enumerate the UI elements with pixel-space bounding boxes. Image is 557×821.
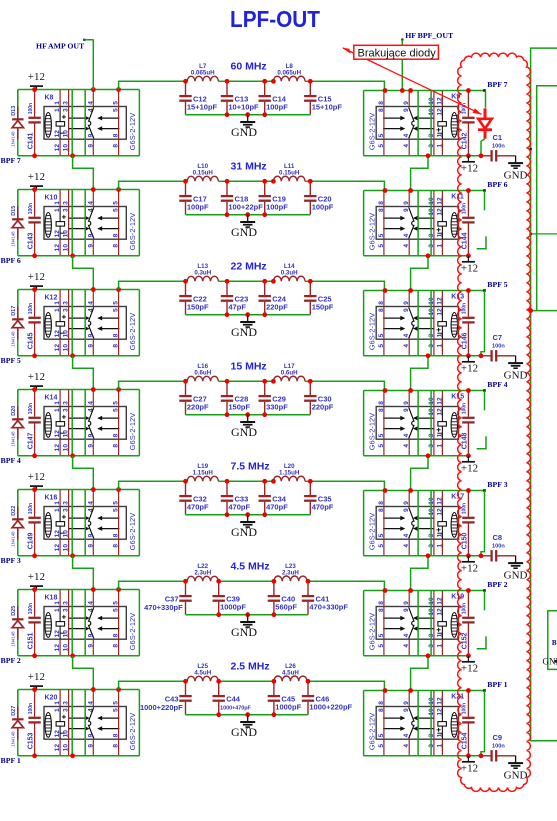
svg-text:8: 8 — [113, 233, 120, 237]
relay internal resistor — [438, 622, 447, 627]
diode D25 — [12, 606, 23, 639]
svg-text:12: 12 — [436, 97, 443, 105]
svg-text:100pF: 100pF — [266, 203, 288, 212]
svg-text:K20: K20 — [45, 695, 58, 702]
relay pin 5 (top) / pin 8 (bottom) wire — [118, 290, 120, 356]
svg-text:4: 4 — [87, 401, 94, 405]
svg-text:D22: D22 — [11, 506, 17, 516]
relay pin 1 (top) / pin 12 (bottom) wire — [59, 90, 61, 156]
svg-text:BPF 6: BPF 6 — [487, 180, 507, 189]
wire left cell bottom rail (row 6) — [18, 655, 140, 657]
annotation arrowhead right (points at missing diode) — [473, 108, 482, 114]
wire stub hook — [477, 236, 486, 249]
capacitor C144 — [462, 191, 474, 256]
svg-text:8: 8 — [113, 733, 120, 737]
relay coil — [45, 613, 51, 638]
capacitor C143 — [28, 190, 40, 256]
wire filter middle — [227, 380, 273, 382]
capacitor C13 — [221, 81, 233, 114]
relay K8 — [44, 107, 126, 140]
+12 supply symbol (right, row 1) — [462, 156, 475, 162]
junction rail/gnd — [245, 512, 250, 517]
junction bus/C — [32, 387, 37, 392]
+12 supply symbol (left, row 5) — [30, 486, 43, 489]
svg-text:C153: C153 — [28, 732, 35, 749]
junction rail/jog — [70, 153, 75, 158]
wire right +12/coil bus (row 5) — [364, 490, 486, 492]
svg-text:9: 9 — [403, 701, 410, 705]
relay lower NC contact arm — [69, 728, 87, 730]
wire HF BPF_OUT to K9 bus — [401, 40, 403, 91]
junction rail/C — [32, 553, 37, 558]
svg-text:12: 12 — [54, 244, 61, 252]
junction rail/C — [32, 653, 37, 658]
wire relay right edge — [138, 690, 140, 756]
svg-text:1: 1 — [436, 344, 443, 348]
svg-text:8: 8 — [378, 701, 385, 705]
svg-text:10: 10 — [63, 544, 70, 552]
svg-text:GND: GND — [231, 525, 257, 539]
svg-text:9: 9 — [403, 501, 410, 505]
svg-text:8: 8 — [113, 633, 120, 637]
relay pin 10 (top) / pin 3 (bottom) wire — [433, 391, 435, 456]
wire filter middle — [219, 580, 274, 582]
junction bus/pin9 — [408, 688, 413, 693]
diode D13 — [12, 106, 23, 139]
svg-text:12: 12 — [436, 197, 443, 205]
svg-text:8: 8 — [378, 208, 385, 212]
wire BPF 5 down to rail — [481, 291, 485, 356]
wire through relay (return) — [417, 591, 419, 656]
wire left cell bottom rail (row 4) — [18, 455, 140, 457]
inductor L20 — [273, 476, 305, 481]
svg-text:22 MHz: 22 MHz — [231, 261, 267, 273]
relay K12 — [44, 307, 126, 340]
svg-text:BPF 2: BPF 2 — [1, 656, 21, 665]
svg-text:8: 8 — [378, 101, 385, 105]
svg-text:5: 5 — [378, 244, 385, 248]
relay lower NC contact arm — [416, 128, 434, 130]
relay coil pin line (pin 1) — [60, 107, 65, 140]
wire right +12/coil bus (row 2) — [364, 190, 486, 192]
relay pin 5 (top) / pin 8 (bottom) wire — [118, 690, 120, 756]
relay pin 12 (top) / pin 1 (bottom) wire — [441, 691, 443, 756]
junction wire/coil2 — [271, 79, 276, 84]
relay upper common contact arm — [99, 517, 120, 519]
junction wire/C13 — [225, 79, 230, 84]
relay coil polarity + — [62, 515, 66, 519]
svg-text:8: 8 — [113, 533, 120, 537]
svg-text:31 MHz: 31 MHz — [231, 161, 267, 173]
relay lower common contact arm — [99, 528, 120, 530]
svg-text:100n: 100n — [462, 603, 468, 614]
wire through relay (return) — [417, 491, 419, 556]
svg-text:100pF: 100pF — [266, 103, 288, 112]
wire BPF 4 stub — [484, 391, 486, 411]
junction rail/C right — [466, 353, 471, 358]
relay coil polarity + — [437, 228, 441, 232]
inductor L26 — [274, 676, 307, 681]
svg-text:C144: C144 — [461, 232, 468, 249]
svg-text:C1: C1 — [493, 133, 503, 142]
svg-text:G6S-2-12V: G6S-2-12V — [128, 613, 137, 651]
relay internal resistor — [438, 122, 447, 127]
svg-text:100pF: 100pF — [312, 203, 334, 212]
junction rail/C9 — [479, 753, 484, 758]
svg-text:0.6uH: 0.6uH — [281, 370, 298, 377]
capacitor C39 — [213, 581, 225, 614]
svg-text:9: 9 — [403, 708, 410, 712]
wire left rail vertical — [17, 290, 19, 356]
junction bus/pin9 — [408, 588, 413, 593]
svg-text:9: 9 — [87, 633, 94, 637]
wire through relay (return) — [417, 191, 419, 256]
relay armature — [409, 707, 414, 738]
svg-text:8: 8 — [378, 301, 385, 305]
svg-text:12: 12 — [436, 208, 443, 216]
svg-text:100n: 100n — [28, 303, 34, 314]
svg-text:100n: 100n — [492, 344, 505, 350]
svg-text:G6S-2-12V: G6S-2-12V — [128, 213, 137, 251]
relay armature — [409, 207, 414, 238]
svg-text:10: 10 — [63, 644, 70, 652]
wire jog to next row bus — [73, 356, 94, 390]
svg-text:9: 9 — [87, 144, 94, 148]
svg-text:5: 5 — [378, 344, 385, 348]
svg-text:470pF: 470pF — [266, 503, 288, 512]
wire left +12/coil bus (row 3) — [18, 289, 140, 291]
wire right cell bottom rail (row 6) — [364, 655, 470, 657]
svg-text:5: 5 — [113, 208, 120, 212]
net terminal BPF 3 (right) — [483, 489, 486, 492]
wire through relay (feed) — [430, 691, 432, 756]
junction wire/C20 — [308, 179, 313, 184]
svg-text:4: 4 — [403, 644, 410, 648]
wire jog to next row bus — [73, 556, 94, 590]
junction bus/C right — [466, 488, 471, 493]
wire missing diode to rail — [481, 139, 485, 156]
relay pin 5 (top) / pin 8 (bottom) wire — [118, 190, 120, 256]
capacitor C148 — [462, 391, 474, 456]
wire jog to next row bus — [73, 256, 94, 290]
capacitor C37 — [179, 581, 191, 614]
svg-text:5: 5 — [113, 708, 120, 712]
svg-text:9: 9 — [87, 544, 94, 548]
relay upper common contact arm — [383, 217, 404, 219]
relay pin 10 (top) / pin 3 (bottom) wire — [433, 491, 435, 556]
+12 supply symbol (right, row 7) — [462, 756, 475, 762]
relay coil polarity + — [62, 615, 66, 619]
svg-text:G6S-2-12V: G6S-2-12V — [368, 713, 377, 751]
wire relay right edge — [138, 590, 140, 656]
svg-text:5: 5 — [113, 601, 120, 605]
svg-text:5: 5 — [378, 133, 385, 137]
svg-text:9: 9 — [87, 444, 94, 448]
svg-text:12: 12 — [54, 630, 61, 638]
capacitor C43 — [179, 681, 191, 714]
relay coil polarity + — [437, 728, 441, 732]
svg-text:4: 4 — [403, 433, 410, 437]
capacitor C23 — [221, 281, 233, 314]
+12 supply symbol (left, row 6) — [30, 586, 43, 589]
wire left +12/coil bus (row 5) — [18, 489, 140, 491]
inductor L8 — [273, 76, 305, 81]
svg-text:LPF-OUT: LPF-OUT — [230, 6, 320, 32]
wire through relay (contact return) — [84, 90, 86, 156]
relay pin 1 (top) / pin 12 (bottom) wire — [59, 490, 61, 556]
relay pin 9 (top) / pin 4 (bottom) wire — [408, 291, 410, 356]
junction wire/C29 — [262, 379, 267, 384]
svg-text:8: 8 — [378, 708, 385, 712]
svg-text:3: 3 — [63, 301, 70, 305]
svg-text:1: 1 — [54, 701, 61, 705]
wire bracket bottom right — [548, 611, 557, 670]
wire right jog to next row bus — [411, 456, 428, 491]
wire filter ground rail (row 4) — [186, 414, 311, 416]
svg-text:4: 4 — [403, 144, 410, 148]
wire left cell bottom rail (row 3) — [18, 355, 140, 357]
relay K21 — [376, 707, 458, 740]
svg-text:5: 5 — [113, 101, 120, 105]
svg-text:1N4148: 1N4148 — [11, 131, 16, 147]
relay internal resistor — [438, 322, 447, 327]
relay pin 3 (top) / pin 10 (bottom) wire — [68, 590, 70, 656]
junction wire/C30 — [308, 379, 313, 384]
svg-text:9: 9 — [403, 301, 410, 305]
svg-text:4: 4 — [403, 633, 410, 637]
junction rail/gnd — [245, 312, 250, 317]
svg-text:1: 1 — [54, 301, 61, 305]
svg-text:9: 9 — [403, 608, 410, 612]
wire left rail vertical — [17, 690, 19, 756]
ground (filter row 1) — [240, 115, 255, 127]
relay pin 12 (top) / pin 1 (bottom) wire — [441, 491, 443, 556]
wire jog to next row bus — [73, 456, 94, 490]
svg-text:3: 3 — [63, 701, 70, 705]
capacitor C150 — [462, 491, 474, 556]
svg-text:470+330pF: 470+330pF — [144, 603, 183, 612]
ground (C7) — [508, 356, 523, 368]
svg-text:9: 9 — [87, 344, 94, 348]
svg-text:1: 1 — [436, 544, 443, 548]
+12 supply symbol (left, row 2) — [30, 186, 43, 189]
wire through relay (contact return) — [84, 490, 86, 556]
relay pin 3 (top) / pin 10 (bottom) wire — [68, 490, 70, 556]
relay pin 12 (top) / pin 1 (bottom) wire — [441, 591, 443, 656]
svg-text:2.3uH: 2.3uH — [194, 570, 211, 577]
inductor L23 — [274, 576, 307, 581]
wire right cell bottom rail (row 3) — [364, 355, 481, 357]
svg-text:15 MHz: 15 MHz — [231, 361, 267, 373]
wire left cell bottom rail (row 5) — [18, 555, 140, 557]
svg-text:4: 4 — [403, 744, 410, 748]
capacitor C12 — [179, 81, 191, 114]
svg-text:4: 4 — [87, 108, 94, 112]
svg-text:5: 5 — [378, 444, 385, 448]
svg-text:100n: 100n — [492, 744, 505, 750]
svg-text:1N4148: 1N4148 — [11, 731, 16, 747]
wire left rail vertical — [17, 390, 19, 456]
wire through relay (contact feed) — [71, 90, 73, 156]
svg-text:BPF 3: BPF 3 — [1, 556, 21, 565]
svg-text:4: 4 — [87, 308, 94, 312]
svg-text:C143: C143 — [28, 232, 35, 249]
relay pin 4 (top) / pin 9 (bottom) wire — [92, 190, 94, 256]
junction rail/cap2 — [216, 712, 221, 717]
svg-text:3: 3 — [63, 501, 70, 505]
svg-text:8: 8 — [113, 144, 120, 148]
wire stub right mid — [531, 233, 557, 235]
relay lower common contact arm — [99, 628, 120, 630]
svg-text:100n: 100n — [462, 503, 468, 514]
wire filter input (row 7) — [119, 681, 186, 689]
relay coil pin line (pin 1) — [60, 307, 65, 340]
junction rail/C right — [466, 253, 471, 258]
svg-text:220pF: 220pF — [187, 403, 209, 412]
relay K16 — [44, 507, 126, 540]
svg-text:100n: 100n — [28, 403, 34, 414]
svg-text:12: 12 — [54, 730, 61, 738]
junction rail/cap3 — [262, 412, 267, 417]
capacitor C153 — [28, 690, 40, 756]
svg-text:4: 4 — [87, 608, 94, 612]
wire filter output (row 4) — [310, 381, 384, 390]
wire right cell left edge — [363, 391, 365, 456]
net terminal BPF 6 (right) — [483, 189, 486, 192]
relay armature — [409, 507, 414, 538]
junction rail/cap2 — [216, 612, 221, 617]
svg-text:12: 12 — [436, 697, 443, 705]
svg-text:1N4148: 1N4148 — [11, 531, 16, 547]
ground (C8) — [508, 556, 523, 568]
wire diode top — [17, 290, 19, 307]
relay pin 8 (top) / pin 5 (bottom) wire — [383, 291, 385, 356]
relay pin 4 (top) / pin 9 (bottom) wire — [92, 90, 94, 156]
svg-text:0.065uH: 0.065uH — [277, 70, 301, 77]
net terminal BPF 1 (right) — [483, 689, 486, 692]
junction bus/C right — [466, 188, 471, 193]
capacitor C44 — [213, 681, 225, 714]
wire relay right edge — [138, 390, 140, 456]
wire BPF 2 stub — [484, 591, 486, 611]
relay lower NC contact arm — [69, 228, 87, 230]
relay pin 9 (top) / pin 4 (bottom) wire — [408, 91, 410, 156]
svg-text:GND: GND — [231, 625, 257, 639]
svg-text:100n: 100n — [28, 503, 34, 514]
+12 supply symbol (right, row 4) — [462, 456, 475, 462]
relay upper NC contact arm — [416, 517, 434, 519]
relay K18 — [44, 607, 126, 640]
junction rail/C8 — [479, 553, 484, 558]
capacitor C152 — [462, 591, 474, 656]
junction rail/jog — [70, 453, 75, 458]
junction rail/C7 — [479, 353, 484, 358]
junction rail/C right — [466, 153, 471, 158]
svg-text:C7: C7 — [493, 333, 503, 342]
junction bus/pin8 — [383, 188, 388, 193]
wire through relay (contact feed) — [71, 590, 73, 656]
svg-text:10: 10 — [63, 130, 70, 138]
svg-text:GND: GND — [504, 769, 528, 781]
svg-text:5: 5 — [113, 201, 120, 205]
svg-text:5: 5 — [378, 233, 385, 237]
capacitor C15 — [304, 81, 316, 114]
svg-text:8: 8 — [378, 608, 385, 612]
relay lower NC contact arm — [69, 328, 87, 330]
svg-text:3: 3 — [63, 201, 70, 205]
svg-text:8: 8 — [113, 644, 120, 648]
svg-text:100n: 100n — [462, 203, 468, 214]
svg-text:9: 9 — [87, 133, 94, 137]
relay pin 4 (top) / pin 9 (bottom) wire — [92, 590, 94, 656]
wire right cell left edge — [363, 491, 365, 556]
svg-text:12: 12 — [436, 608, 443, 616]
junction rail/cap3 — [272, 712, 277, 717]
relay pin 8 (top) / pin 5 (bottom) wire — [383, 591, 385, 656]
junction wire/coil2 — [271, 479, 276, 484]
junction bus/pin8 — [383, 688, 388, 693]
svg-text:G6S-2-12V: G6S-2-12V — [368, 413, 377, 451]
svg-text:9: 9 — [403, 208, 410, 212]
+12 supply symbol (left, row 7) — [30, 686, 43, 689]
junction rail/jog — [70, 753, 75, 758]
svg-text:3: 3 — [63, 401, 70, 405]
relay upper NC contact arm — [416, 117, 434, 119]
svg-text:G6S-2-12V: G6S-2-12V — [128, 413, 137, 451]
svg-text:12: 12 — [54, 744, 61, 752]
svg-text:100n: 100n — [28, 703, 34, 714]
svg-text:Brakujące diody: Brakujące diody — [358, 47, 437, 59]
svg-text:5: 5 — [378, 144, 385, 148]
svg-text:GND: GND — [231, 225, 257, 239]
wire filter ground rail (row 1) — [186, 114, 311, 116]
svg-text:G6S-2-12V: G6S-2-12V — [368, 213, 377, 251]
svg-text:0.15uH: 0.15uH — [279, 170, 300, 177]
wire through relay (contact feed) — [71, 690, 73, 756]
wire filter input (row 1) — [119, 81, 186, 89]
svg-text:12: 12 — [54, 644, 61, 652]
svg-text:2.3uH: 2.3uH — [282, 570, 299, 577]
relay pin 8 (top) / pin 5 (bottom) wire — [383, 491, 385, 556]
relay internal resistor — [56, 222, 65, 227]
inductor L17 — [273, 376, 305, 381]
svg-text:12: 12 — [54, 144, 61, 152]
capacitor C29 — [259, 381, 271, 414]
relay internal resistor — [438, 222, 447, 227]
wire through relay (contact feed) — [71, 290, 73, 356]
junction rail/cap3 — [272, 612, 277, 617]
net terminal GND (cut) — [555, 660, 557, 662]
junction rail/jog right — [426, 253, 431, 258]
relay pin 5 (top) / pin 8 (bottom) wire — [118, 90, 120, 156]
wire through relay (contact feed) — [71, 490, 73, 556]
relay upper NC contact arm — [69, 517, 87, 519]
relay coil pin line (pin 12) — [437, 407, 442, 440]
junction rail/gnd — [245, 412, 250, 417]
wire through relay (contact return) — [84, 590, 86, 656]
junction rail/jog — [70, 253, 75, 258]
svg-text:8: 8 — [113, 344, 120, 348]
capacitor C151 — [28, 590, 40, 656]
svg-text:G6S-2-12V: G6S-2-12V — [368, 513, 377, 551]
wire left rail vertical — [17, 190, 19, 256]
junction rail/jog right — [426, 153, 431, 158]
junction bus/pin9 — [408, 88, 413, 93]
svg-text:1: 1 — [54, 308, 61, 312]
capacitor C1 — [481, 150, 516, 161]
relay pin 1 (top) / pin 12 (bottom) wire — [59, 690, 61, 756]
svg-text:8: 8 — [378, 308, 385, 312]
